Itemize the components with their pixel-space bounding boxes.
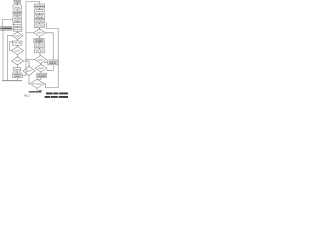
svg-text:match?: match? <box>36 32 42 35</box>
diamond D13 <box>30 79 45 88</box>
box LS start <box>14 0 21 3</box>
B12 underlay <box>38 74 46 77</box>
node A arrow into box B1 <box>39 3 40 4</box>
wire LD7-L8 <box>16 39 18 41</box>
svg-text:done?: done? <box>38 59 43 61</box>
wire B12-D13 <box>37 78 41 80</box>
box B5 <box>35 24 45 28</box>
svg-text:read block: read block <box>35 21 43 23</box>
svg-text:send ack: send ack <box>50 61 57 63</box>
small arrowheads <box>17 22 42 85</box>
diamond LD7 <box>12 32 23 39</box>
box L3 <box>13 11 22 15</box>
svg-text:parse hdr: parse hdr <box>36 11 44 13</box>
wire LCD bottom to D13 left vertex <box>28 75 31 83</box>
wire LD10-L11 <box>16 65 18 68</box>
wire L11-L12 <box>16 71 18 73</box>
interior underlays for dark boxes <box>1 1 57 91</box>
svg-text:scan entry: scan entry <box>35 25 43 28</box>
node arrow down into LCD <box>28 65 29 66</box>
svg-text:w/ index: w/ index <box>36 41 42 43</box>
box L6 <box>13 27 22 31</box>
FLAT underlay <box>1 27 11 29</box>
end-bar right blob <box>39 90 42 91</box>
box L4 <box>13 17 22 21</box>
wire L12 bottom to collector <box>16 78 18 81</box>
svg-text:retry?: retry? <box>15 60 20 63</box>
SB underlay <box>49 61 57 64</box>
wire L12 right arrow to long vertical <box>22 74 26 76</box>
box B4 <box>35 19 45 22</box>
wire SB left exit arrow back to column <box>44 61 48 63</box>
arrow into L12 <box>17 72 18 73</box>
wire bottom collector <box>2 80 22 82</box>
wire L8-LD9 <box>16 45 18 46</box>
arrow into D10 left vertex <box>33 59 34 60</box>
svg-text:store data: store data <box>36 50 44 53</box>
box B1 <box>35 4 45 8</box>
diamond D11 <box>35 65 47 72</box>
diamond LD9 <box>12 47 24 55</box>
wire LD7 left exit to second vertical <box>7 36 12 81</box>
wire B7-B8 <box>39 43 41 44</box>
wire L5-L6 <box>16 26 18 27</box>
bottom right caption line 1 <box>46 93 68 95</box>
wire LD10 right exit to LC diamond <box>24 61 30 66</box>
L12 underlay <box>13 74 21 77</box>
svg-text:Fig. 1: Fig. 1 <box>24 94 31 97</box>
wire left-center long vertical <box>25 33 27 77</box>
wire B4-B5 <box>39 23 41 24</box>
wire B9-D10 <box>39 53 41 56</box>
wire L4 left to FLAT top connector <box>2 20 13 27</box>
svg-text:table map: table map <box>36 16 43 19</box>
wire stub from long vertical to D10 left vertex <box>26 59 34 61</box>
wire L6-LD7 <box>16 30 18 33</box>
wire LD9 left stub <box>10 42 13 51</box>
node arrow left into D11 <box>46 70 47 71</box>
wire L2-L3 <box>16 9 18 11</box>
wire D13 right exit loop: right, down, to big return <box>45 23 59 88</box>
wire B1-B2 <box>39 8 41 10</box>
arrow into D13 <box>36 79 37 80</box>
wire D13 bottom to end bar <box>36 88 38 91</box>
node arrow up into B5 area <box>46 23 47 24</box>
svg-text:start: start <box>15 1 19 4</box>
wire D11-B12 <box>40 72 42 73</box>
svg-text:fetch cmd: fetch cmd <box>13 42 21 45</box>
box L11 <box>13 68 21 71</box>
svg-text:to memory: to memory <box>38 75 46 78</box>
box B12 <box>37 73 47 77</box>
svg-text:valid?: valid? <box>39 68 44 70</box>
wire L3-L4 <box>16 15 18 17</box>
diamond D10 <box>35 55 47 63</box>
L3 underlay <box>14 12 21 15</box>
box B7 <box>34 38 44 42</box>
B7 underlay <box>35 39 44 42</box>
box FLAT side label box <box>1 27 12 31</box>
arrow into L8 <box>17 40 18 41</box>
wire far-left vertical from FLAT <box>2 30 4 80</box>
arrow into B12 <box>40 72 41 73</box>
end bar <box>29 91 41 92</box>
wire D10-D11 <box>40 64 42 65</box>
arrow into D13 left vertex <box>29 83 30 85</box>
box L12 <box>13 73 23 78</box>
svg-text:update ptr: update ptr <box>35 45 43 48</box>
svg-text:more data?: more data? <box>32 83 43 86</box>
connector arrowheads <box>17 4 42 65</box>
bottom right caption line 2 <box>45 96 68 98</box>
wire D6-B7 <box>39 37 41 39</box>
wire D6 left stub to long vertical <box>26 32 34 34</box>
wire B3-B4 <box>39 17 41 20</box>
svg-text:get status: get status <box>13 23 21 26</box>
wire SB bottom exit down-left to D11 <box>47 65 54 71</box>
node arrow left into D10 <box>44 62 45 63</box>
svg-text:wait for event: wait for event <box>1 27 13 30</box>
wire B5-D6 <box>39 28 41 29</box>
text smudges: simulated illegible text <box>1 1 68 98</box>
diamond D6 <box>34 29 46 37</box>
box SB <box>48 60 58 65</box>
start box underlay <box>15 1 20 3</box>
wire B8-B9 <box>39 48 41 49</box>
wire L4-L5 <box>16 21 18 22</box>
wire FLAT to L6 <box>12 27 14 29</box>
svg-text:init sys: init sys <box>15 6 21 9</box>
wire B2-B3 <box>39 13 41 14</box>
svg-text:receive req: receive req <box>34 5 45 8</box>
svg-text:error?: error? <box>15 49 20 52</box>
svg-text:log evt: log evt <box>15 68 21 71</box>
wire LD9-LD10 <box>16 55 18 57</box>
box B3 <box>35 15 45 19</box>
wire LS-L2 <box>16 3 18 5</box>
box L5 <box>13 23 22 27</box>
arrow into L5 <box>17 22 18 23</box>
svg-text:poll device: poll device <box>13 29 22 31</box>
arrow into B7 <box>39 38 40 39</box>
box L2 <box>13 5 22 9</box>
wire D6 right exit to side box SB <box>46 33 54 60</box>
box B9 <box>35 49 45 53</box>
B1 underlay <box>35 5 44 7</box>
box L8 <box>13 41 22 45</box>
box B8 <box>35 44 45 48</box>
wire top entry to center column <box>26 2 40 33</box>
svg-text:abort?: abort? <box>26 70 31 73</box>
arrow into L11 <box>17 67 18 68</box>
box B2 <box>35 10 45 14</box>
diamond LD10 <box>12 57 24 65</box>
diamond LCD <box>23 66 35 75</box>
svg-text:ready?: ready? <box>15 34 21 37</box>
